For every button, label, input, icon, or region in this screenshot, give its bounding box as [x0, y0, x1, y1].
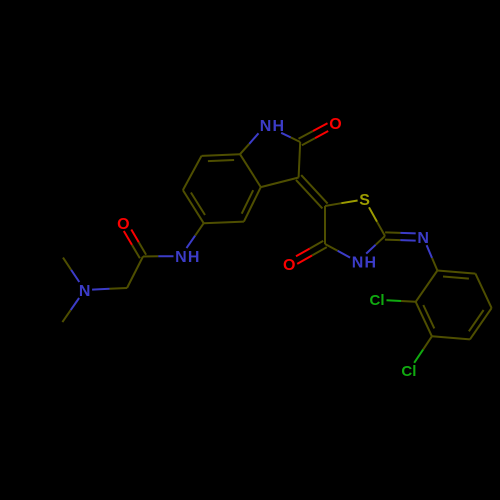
bond P2-Cl1	[401, 300, 416, 303]
bond Ndm-Me1	[71, 270, 79, 282]
bond C7a-C7o	[202, 154, 241, 156]
bond C2t-Nim	[385, 239, 400, 242]
bond P1-P6	[437, 271, 475, 274]
bond C3-C3a	[261, 178, 299, 188]
bond C3a-C7a	[240, 154, 261, 187]
svg-text:N: N	[417, 230, 429, 247]
bond C5o-C4o	[204, 222, 244, 224]
svg-text:N: N	[79, 283, 91, 300]
bond C6o-C5o	[183, 190, 204, 223]
bond P3-Cl2	[423, 336, 432, 349]
bond Cam-Oam	[139, 242, 146, 255]
bond Nim-P1	[427, 245, 432, 258]
bond CH2-Ndm	[110, 287, 128, 290]
bond C2t-N3	[376, 236, 385, 245]
svg-text:O: O	[283, 257, 295, 274]
svg-text:S: S	[359, 192, 370, 209]
bond C7a-N1	[240, 144, 249, 154]
svg-text:NH: NH	[352, 254, 378, 271]
bond C5t-S1	[325, 203, 341, 206]
svg-text:Cl: Cl	[370, 292, 385, 309]
svg-text:Cl: Cl	[401, 363, 416, 380]
bond S1-C2t	[369, 207, 377, 221]
svg-text:NH: NH	[175, 249, 201, 266]
bond C4t-O4	[310, 241, 324, 249]
svg-text:O: O	[329, 116, 341, 133]
bond P4-P3	[432, 336, 470, 339]
bond N1-C2	[281, 133, 291, 138]
bond N3-C4t	[338, 251, 351, 258]
bond C3-C5t	[296, 180, 322, 209]
bond C4o-C3a	[244, 187, 261, 222]
svg-text:O: O	[117, 216, 129, 233]
bond Nam-Cam	[158, 255, 173, 257]
bond P6-P5	[475, 274, 491, 309]
svg-text:NH: NH	[260, 118, 286, 135]
bond C7o-C6o	[183, 156, 202, 190]
bond Cam-CH2	[127, 257, 143, 289]
bond C5o-Nam	[195, 223, 204, 236]
bond P2-P1	[416, 271, 438, 302]
bond C2-C3	[299, 142, 301, 178]
bond Ndm-Me2	[71, 298, 79, 310]
bond P3-P2	[416, 302, 432, 337]
bond C4t-C5t	[324, 206, 326, 244]
bond P5-P4	[470, 308, 492, 339]
bond C2-O2	[302, 138, 315, 145]
